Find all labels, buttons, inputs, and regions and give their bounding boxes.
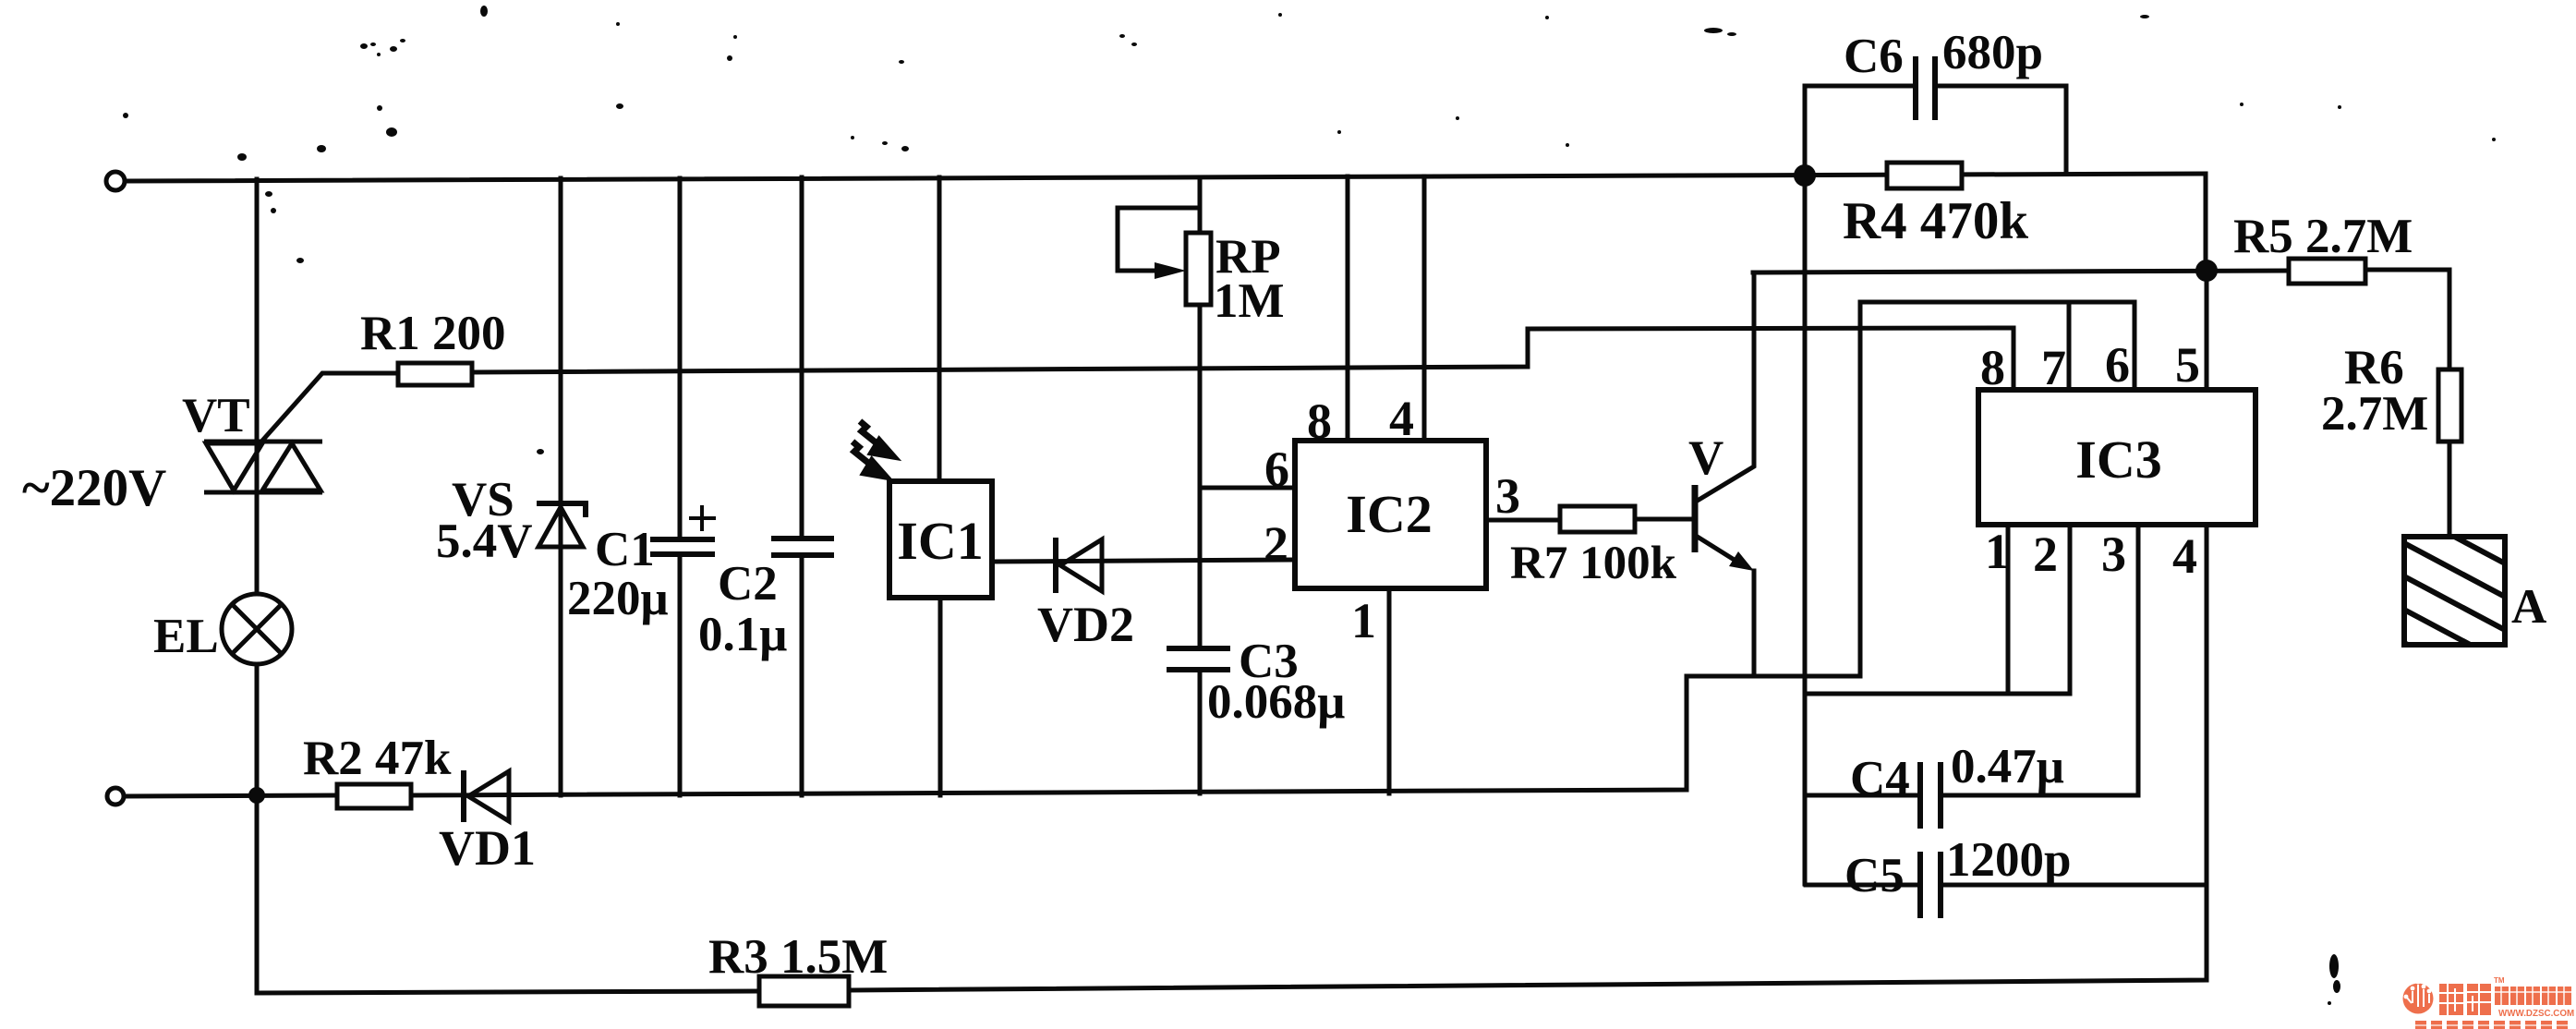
svg-text:5.4V: 5.4V bbox=[436, 514, 533, 568]
svg-text:C2: C2 bbox=[718, 557, 778, 611]
svg-text:7: 7 bbox=[2041, 340, 2066, 395]
svg-text:VT: VT bbox=[182, 389, 250, 442]
svg-text:R1 200: R1 200 bbox=[360, 307, 506, 360]
svg-text:~220V: ~220V bbox=[22, 459, 166, 517]
svg-text:220μ: 220μ bbox=[567, 572, 669, 625]
svg-text:2.7M: 2.7M bbox=[2321, 387, 2428, 441]
svg-text:5: 5 bbox=[2175, 337, 2200, 393]
svg-text:1: 1 bbox=[1351, 593, 1376, 648]
svg-text:4: 4 bbox=[1389, 391, 1414, 446]
svg-text:R2 47k: R2 47k bbox=[303, 732, 452, 785]
svg-text:V: V bbox=[1688, 431, 1723, 485]
svg-text:C5: C5 bbox=[1844, 849, 1905, 902]
svg-text:8: 8 bbox=[1307, 393, 1332, 449]
svg-text:IC1: IC1 bbox=[897, 511, 983, 571]
svg-text:R3 1.5M: R3 1.5M bbox=[708, 930, 888, 984]
svg-text:C4: C4 bbox=[1850, 752, 1910, 805]
svg-text:EL: EL bbox=[153, 610, 219, 663]
svg-text:TM: TM bbox=[2494, 976, 2505, 985]
svg-text:3: 3 bbox=[1495, 468, 1520, 524]
svg-text:0.1μ: 0.1μ bbox=[698, 608, 787, 661]
svg-text:680p: 680p bbox=[1942, 26, 2043, 79]
svg-text:VD2: VD2 bbox=[1037, 597, 1134, 652]
svg-text:1: 1 bbox=[1985, 524, 2010, 579]
svg-text:2: 2 bbox=[2033, 527, 2058, 582]
svg-text:1200p: 1200p bbox=[1946, 833, 2071, 887]
svg-text:VD1: VD1 bbox=[439, 820, 536, 876]
svg-text:0.47μ: 0.47μ bbox=[1951, 740, 2064, 793]
svg-text:6: 6 bbox=[2105, 337, 2130, 393]
svg-text:R5 2.7M: R5 2.7M bbox=[2233, 210, 2413, 263]
svg-text:1M: 1M bbox=[1214, 274, 1285, 328]
svg-text:IC3: IC3 bbox=[2075, 430, 2161, 490]
svg-text:IC2: IC2 bbox=[1346, 484, 1432, 544]
svg-text:C1: C1 bbox=[595, 523, 655, 576]
svg-text:2: 2 bbox=[1264, 516, 1288, 572]
svg-text:8: 8 bbox=[1980, 340, 2005, 395]
svg-text:WWW.DZSC.COM: WWW.DZSC.COM bbox=[2498, 1009, 2574, 1019]
svg-text:A: A bbox=[2511, 580, 2546, 634]
svg-text:6: 6 bbox=[1264, 442, 1289, 497]
svg-text:R7 100k: R7 100k bbox=[1510, 538, 1677, 589]
svg-text:C6: C6 bbox=[1844, 30, 1904, 83]
svg-text:0.068μ: 0.068μ bbox=[1207, 675, 1345, 729]
svg-text:4: 4 bbox=[2172, 528, 2197, 584]
svg-text:R4 470k: R4 470k bbox=[1843, 192, 2028, 250]
svg-text:3: 3 bbox=[2101, 527, 2126, 582]
